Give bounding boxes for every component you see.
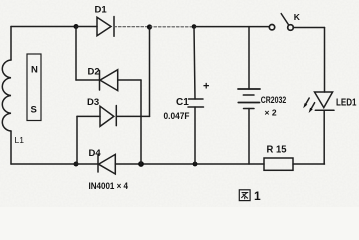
wire right rail bottom [323, 110, 325, 164]
diode D3 [77, 97, 150, 126]
wire bottom rail right [293, 163, 325, 165]
wire B column (B down to D3 row) [149, 27, 151, 116]
caption figure 1 (drawn glyph) [239, 189, 261, 203]
svg-text:D1: D1 [95, 5, 108, 16]
wire top rail left [11, 26, 76, 28]
wire right rail top [324, 28, 326, 93]
wire left bridge column (A to D2) [75, 27, 77, 81]
svg-text:D3: D3 [87, 97, 99, 108]
node bottom bridge-right junction [138, 161, 144, 167]
svg-text:1: 1 [254, 189, 261, 203]
svg-text:K: K [294, 12, 301, 22]
light arrow 2 [311, 103, 315, 110]
svg-text:CR2032: CR2032 [261, 95, 287, 105]
magnet N-S [27, 54, 41, 121]
node A (top-left bridge junction) [74, 24, 79, 29]
diode D2 [76, 67, 141, 91]
svg-text:S: S [31, 105, 37, 116]
node B (top-right bridge junction) [147, 24, 152, 29]
resistor R15 [264, 145, 293, 171]
wire bottom rail left [11, 163, 98, 165]
inductor L1 [2, 60, 24, 145]
diode D4 [89, 148, 116, 174]
svg-text:C1: C1 [176, 97, 189, 108]
svg-text:D4: D4 [89, 148, 102, 159]
battery CR2032 x2 [238, 27, 286, 164]
LED LED1 [303, 92, 357, 113]
node bottom-left bridge junction [74, 162, 79, 167]
svg-text:IN4001 × 4: IN4001 × 4 [89, 181, 129, 191]
svg-text:× 2: × 2 [265, 108, 277, 118]
svg-text:D2: D2 [88, 67, 100, 78]
svg-text:R 15: R 15 [267, 145, 287, 156]
wire left lower column (D3 to bottom-left node) [76, 116, 78, 164]
capacitor C1 [164, 27, 210, 165]
wire bottom rail middle [115, 163, 264, 165]
svg-text:L1: L1 [15, 135, 25, 145]
svg-text:N: N [31, 65, 38, 76]
node bottom C1 junction [193, 162, 198, 167]
wire left rail bottom [10, 131, 12, 164]
wire left rail top [10, 27, 12, 61]
switch K [269, 12, 324, 30]
wire top rail middle [150, 26, 195, 28]
svg-text:+: + [203, 81, 209, 93]
wire bridge right column (D2 to bottom) [140, 80, 142, 164]
node C1 top junction [192, 24, 197, 29]
diode D1 [76, 5, 150, 37]
wire top rail to switch [194, 26, 269, 28]
light arrow 1 [305, 98, 309, 105]
svg-text:0.047F: 0.047F [164, 111, 190, 121]
svg-text:LED1: LED1 [336, 98, 357, 109]
